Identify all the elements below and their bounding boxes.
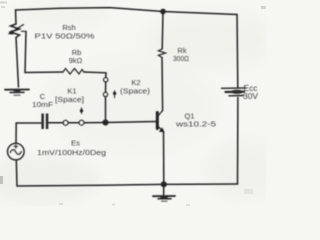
ground GND2 <box>153 184 175 201</box>
junction base node <box>102 119 108 125</box>
wire Rb left segment <box>25 71 63 74</box>
svg-text:10mF: 10mF <box>32 100 53 109</box>
transistor Q1 <box>157 111 164 133</box>
wire battery branch lower <box>237 98 239 185</box>
svg-text:9kΩ: 9kΩ <box>69 56 83 65</box>
switch K2 <box>103 78 116 98</box>
wire source to bottom rail <box>15 160 18 186</box>
svg-text:Es: Es <box>71 139 80 148</box>
wire emitter branch <box>163 132 165 185</box>
wire left branch upper stub <box>15 10 18 24</box>
potentiometer Rsh <box>8 24 26 38</box>
svg-text:30V: 30V <box>243 92 259 101</box>
junction emitter / bottom rail <box>161 181 167 187</box>
wire battery branch upper <box>236 15 239 88</box>
wire collector branch upper <box>161 12 164 50</box>
junction top rail / Rk branch <box>160 9 166 15</box>
svg-text:1mV/100Hz/0Deg: 1mV/100Hz/0Deg <box>37 148 106 157</box>
wire Rb right segment <box>84 72 106 77</box>
wire Rsh wiper vertical <box>25 32 26 73</box>
wire capacitor to K1 <box>49 122 64 124</box>
wire source to capacitor <box>16 123 41 143</box>
svg-text:(Space): (Space) <box>120 87 151 96</box>
source Es <box>8 143 25 160</box>
wire pot lower stub <box>16 38 19 88</box>
svg-text:ws10.2-5: ws10.2-5 <box>175 120 216 129</box>
resistor Rb <box>63 69 84 75</box>
capacitor C <box>41 114 48 130</box>
resistor Rk <box>158 49 165 58</box>
ground GND1 <box>5 89 29 95</box>
switch K1 <box>63 108 84 126</box>
svg-text:[Space]: [Space] <box>55 95 84 104</box>
wire bottom rail <box>17 184 238 186</box>
wire top rail <box>16 8 238 15</box>
wire Rk to collector <box>161 58 164 111</box>
wire K2 to base junction <box>105 97 107 123</box>
wire base segment <box>106 122 157 123</box>
svg-text:P1V 50Ω/50%: P1V 50Ω/50% <box>35 31 95 40</box>
svg-text:300Ω: 300Ω <box>173 54 189 63</box>
battery Ecc <box>222 88 247 96</box>
wire K1 to junction <box>84 122 106 124</box>
